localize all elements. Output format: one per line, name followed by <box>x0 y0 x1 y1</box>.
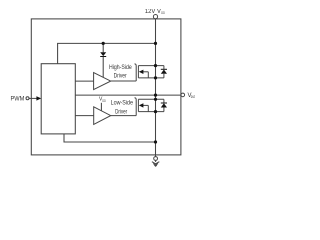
node junction dots <box>102 42 157 144</box>
svg-text:DD: DD <box>161 11 165 15</box>
node ground return junction <box>154 140 157 143</box>
wire bootstrap diode branch lower to driver <box>102 56 104 77</box>
node Q1 drain junction <box>154 64 157 67</box>
terminal ground pin <box>154 157 158 161</box>
ground symbol <box>152 160 159 166</box>
wire mid Vout net from block to right edge <box>75 94 181 96</box>
node Q2 drain junction <box>154 98 157 101</box>
transistor Q2 low-side MOSFET <box>135 98 164 116</box>
transistor Q1 high-side MOSFET <box>135 64 164 81</box>
node diode top junction <box>102 42 105 45</box>
control block U1 <box>41 64 75 134</box>
svg-text:PWM: PWM <box>11 95 25 102</box>
wire VDD top rail from block top to rail <box>58 43 156 63</box>
wire vertical VDD rail <box>155 19 157 157</box>
terminal Vout pin <box>181 93 185 97</box>
svg-text:Low-Side: Low-Side <box>111 100 134 107</box>
terminal 12V VDD pin <box>153 15 157 19</box>
op-amp high-side driver buffer <box>94 73 111 90</box>
diode body diode of Q2 <box>161 99 167 111</box>
wire high-side driver output to gate <box>111 80 137 82</box>
wire high-side driver input <box>75 80 93 82</box>
svg-text:out: out <box>191 94 195 99</box>
svg-text:12V V: 12V V <box>145 9 161 15</box>
wire low-side driver output to gate <box>111 115 137 117</box>
svg-text:High-Side: High-Side <box>109 64 132 71</box>
IC outer boundary box <box>31 19 181 155</box>
node Vout junction <box>154 94 157 97</box>
wire low-side driver input <box>75 115 93 117</box>
svg-text:Driver: Driver <box>114 73 127 80</box>
node Q1 source junction <box>154 76 157 79</box>
diode body diode of Q1 <box>161 66 167 78</box>
diode D1 bootstrap <box>100 52 106 56</box>
node rail top junction <box>154 42 157 45</box>
node Q2 source junction <box>154 110 157 113</box>
wire ground return from block bottom <box>64 134 156 142</box>
wire low-side driver VDD tap <box>100 103 102 111</box>
svg-text:DD: DD <box>102 99 106 103</box>
wire bootstrap diode branch upper <box>102 43 104 52</box>
op-amp low-side driver buffer <box>94 107 111 125</box>
terminal PWM pin <box>26 96 41 100</box>
svg-text:Driver: Driver <box>115 109 127 116</box>
